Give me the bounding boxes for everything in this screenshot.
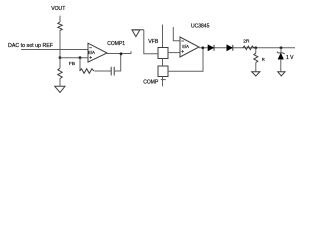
op-amp COMP1 bbox=[88, 43, 107, 62]
ground (zener) bbox=[278, 72, 285, 76]
svg-text:VFB: VFB bbox=[148, 39, 159, 45]
node feedback tap bbox=[79, 56, 82, 59]
port flag VFB bbox=[132, 30, 144, 37]
wire COMP1 output bbox=[107, 51, 131, 53]
svg-text:E/A: E/A bbox=[182, 44, 189, 49]
diode D1 bbox=[208, 45, 214, 51]
wire box R1 to E/A non-inverting bbox=[168, 52, 180, 54]
wire E/A output rail bbox=[199, 47, 295, 49]
wire zener to ground bbox=[280, 59, 282, 71]
wire feedback R to C bbox=[94, 70, 111, 72]
resistor feedback bbox=[80, 69, 94, 74]
wire zener bbox=[280, 48, 282, 53]
wire feedback C up to output bbox=[114, 54, 121, 71]
node output/feedback bbox=[120, 52, 123, 55]
node FB bbox=[59, 56, 62, 59]
wire FB node down bbox=[59, 58, 61, 69]
node divider tap bbox=[254, 46, 257, 49]
svg-text:COMP: COMP bbox=[143, 79, 159, 85]
pin plus COMP1 bbox=[89, 56, 92, 59]
pin plus E/A bbox=[181, 50, 184, 53]
zener 1V body bbox=[278, 53, 284, 59]
diode D2 bbox=[227, 45, 233, 51]
zener 1V bar bbox=[277, 52, 285, 54]
resistor box internal R1 bbox=[158, 48, 168, 59]
capacitor feedback bbox=[111, 67, 114, 76]
wire box R1 to box R2 bbox=[162, 59, 164, 67]
resistor 2R bbox=[243, 46, 256, 50]
wire tap down bbox=[255, 48, 257, 53]
svg-text:2R: 2R bbox=[243, 39, 250, 45]
node zener tap bbox=[280, 46, 283, 49]
wire COMP pin bbox=[162, 77, 164, 87]
pin minus COMP1 bbox=[89, 47, 92, 49]
wire divider to FB node bbox=[59, 31, 61, 58]
resistor R bbox=[254, 53, 258, 62]
resistor lower divider (FB to ground) bbox=[58, 68, 62, 78]
node E/A output bbox=[201, 46, 204, 49]
wire FB to COMP1 non-inverting input bbox=[60, 57, 88, 59]
wire to ground bbox=[59, 79, 61, 87]
svg-text:COMP1: COMP1 bbox=[107, 41, 125, 47]
wire DAC to COMP1 inverting input bbox=[21, 49, 88, 51]
pin minus E/A bbox=[181, 40, 184, 42]
pin tick COMP bbox=[161, 79, 166, 81]
wire stub to box R1 bbox=[162, 25, 164, 48]
resistor upper divider (VOUT to FB) bbox=[58, 22, 62, 31]
wire feedback down from tap bbox=[79, 58, 81, 71]
svg-text:R: R bbox=[262, 57, 265, 62]
wire VOUT stub bbox=[59, 16, 61, 22]
svg-text:FB: FB bbox=[69, 61, 75, 67]
svg-text:E/A: E/A bbox=[88, 50, 95, 55]
resistor box internal R2 bbox=[158, 66, 168, 77]
wire box R2 to E/A output bbox=[168, 48, 203, 71]
wire R to ground bbox=[255, 63, 257, 72]
svg-text:DAC to set up REF: DAC to set up REF bbox=[8, 43, 54, 49]
ground (R) bbox=[252, 72, 260, 76]
svg-text:1 V: 1 V bbox=[286, 55, 294, 61]
wire stub to E/A inverting bbox=[173, 27, 179, 41]
svg-text:UC3845: UC3845 bbox=[191, 24, 210, 30]
ground (left divider) bbox=[55, 86, 65, 92]
svg-text:VOUT: VOUT bbox=[51, 6, 65, 12]
wire flag to VFB pin bbox=[144, 30, 158, 54]
op-amp E/A UC3845 bbox=[180, 37, 199, 57]
